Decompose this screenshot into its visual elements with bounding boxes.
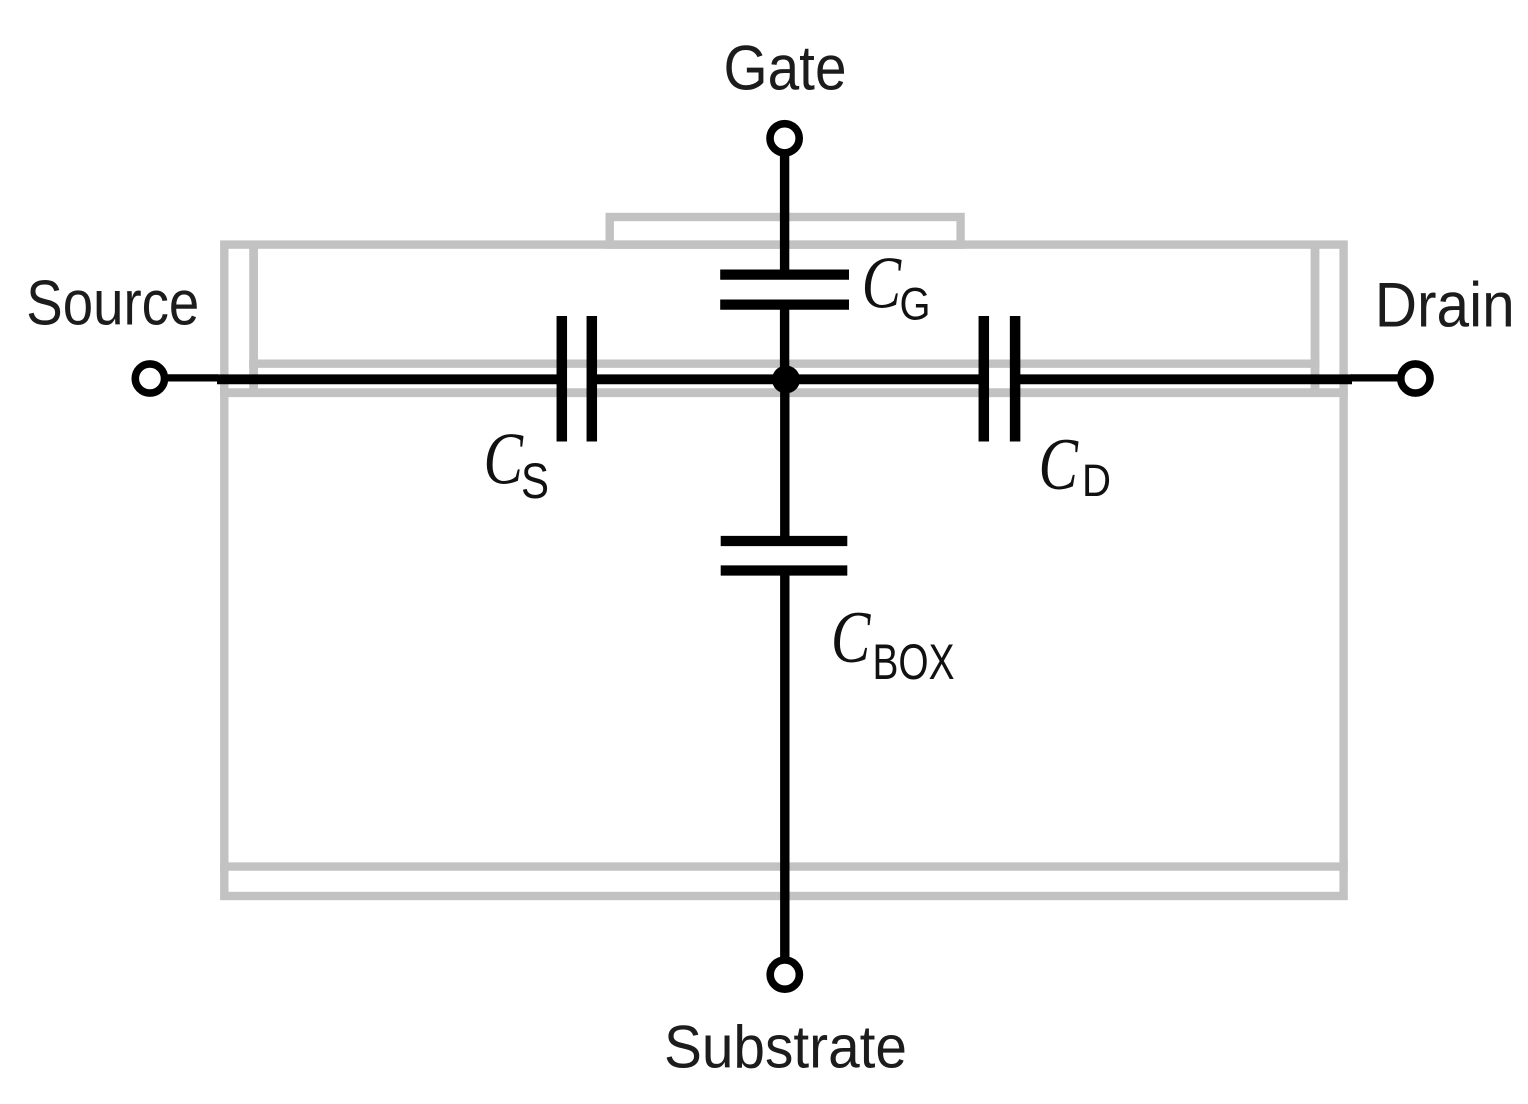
- bottom substrate line: [220, 862, 1348, 870]
- svg-text:D: D: [1082, 455, 1111, 506]
- wire gate lead: [780, 155, 789, 276]
- svg-text:Substrate: Substrate: [664, 1014, 907, 1081]
- svg-text:S: S: [521, 453, 549, 509]
- svg-text:Drain: Drain: [1375, 270, 1515, 340]
- BOX bottom line: [220, 388, 1348, 397]
- svg-text:Gate: Gate: [724, 34, 847, 104]
- gate terminal: [770, 124, 799, 153]
- wire CS-node-CD: [592, 374, 984, 384]
- capacitor CD: [984, 316, 1015, 442]
- drain terminal: [1401, 364, 1430, 393]
- substrate outer rectangle (device outline): [224, 245, 1343, 896]
- film left edge: [249, 245, 258, 393]
- svg-text:Source: Source: [26, 268, 199, 338]
- svg-text:C: C: [1039, 424, 1080, 506]
- svg-text:C: C: [862, 242, 903, 324]
- node junction dot: [772, 366, 800, 394]
- film/BOX divider line: [249, 360, 1319, 368]
- wire source lead: [164, 374, 218, 381]
- wire drain lead: [1351, 374, 1401, 381]
- svg-text:C: C: [484, 418, 525, 500]
- wire node-CBOX: [780, 379, 789, 541]
- capacitor CG: [720, 275, 849, 305]
- wire gate-node: [780, 305, 789, 382]
- gate rectangle: [610, 217, 961, 245]
- wire source-CS: [217, 374, 562, 384]
- wire CBOX-substrate: [780, 571, 789, 958]
- source terminal: [135, 364, 164, 393]
- substrate terminal: [770, 960, 799, 989]
- capacitor CS: [562, 316, 592, 442]
- svg-text:G: G: [900, 279, 931, 330]
- capacitor CBOX: [721, 541, 848, 571]
- film right edge: [1311, 245, 1320, 393]
- svg-text:C: C: [831, 597, 872, 679]
- svg-text:BOX: BOX: [873, 634, 955, 690]
- wire CD-drain: [1015, 374, 1352, 384]
